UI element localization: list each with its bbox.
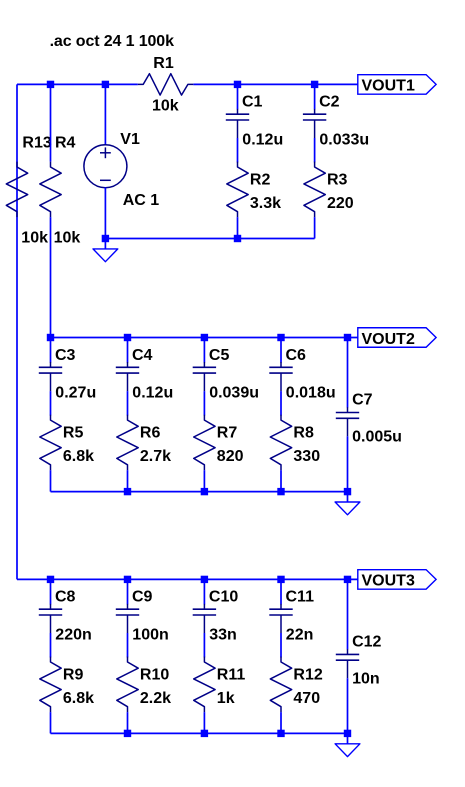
wire C8 top lead: [50, 579, 52, 604]
wire between C8 and R9: [50, 633, 52, 657]
svg-text:R11: R11: [217, 666, 246, 683]
svg-text:R12: R12: [293, 666, 322, 683]
svg-text:R8: R8: [293, 425, 314, 442]
label C8 value: [55, 627, 91, 644]
svg-text:V1: V1: [120, 131, 140, 148]
wire R4 lower lead down to section 2: [50, 217, 52, 337]
wire section3 top-left link: [17, 578, 51, 580]
svg-text:C1: C1: [242, 94, 263, 111]
capacitor C9: [116, 604, 139, 633]
wire C10 top lead: [203, 579, 205, 604]
junction node R6/bottom rail2: [124, 488, 131, 495]
junction node C7/top rail2: [344, 334, 351, 341]
label C3 name: [55, 347, 76, 364]
label R11 value: [217, 690, 235, 707]
svg-text:2.7k: 2.7k: [140, 448, 171, 465]
svg-text:0.12u: 0.12u: [242, 132, 283, 149]
svg-text:0.039u: 0.039u: [209, 385, 259, 402]
svg-text:10n: 10n: [352, 670, 380, 687]
wire section3 bottom rail: [51, 732, 348, 734]
wire R11 bottom lead: [203, 712, 205, 733]
resistor R12: [270, 657, 291, 713]
svg-text:C11: C11: [286, 589, 315, 606]
wire R4 upper lead: [50, 84, 52, 161]
resistor R13: [6, 162, 27, 218]
wire between C4 and R6: [127, 391, 129, 415]
flag VOUT2: [358, 328, 436, 348]
label C1 value: [242, 132, 283, 149]
spice directive .ac analysis text: [50, 33, 174, 50]
capacitor C7: [336, 407, 359, 436]
svg-text:6.8k: 6.8k: [63, 448, 94, 465]
wire C2 top lead: [314, 84, 316, 109]
label C3 value: [55, 385, 96, 402]
capacitor C1: [226, 109, 249, 138]
wire between C5 and R7: [203, 391, 205, 415]
capacitor C10: [193, 604, 216, 633]
junction node C8/top rail3: [47, 576, 54, 583]
label R6 value: [140, 448, 171, 465]
voltage source V1: [84, 145, 127, 188]
label C12 value: [352, 670, 380, 687]
svg-text:820: 820: [217, 448, 244, 465]
wire section2 top rail VOUT2 net: [51, 337, 358, 339]
label R5 name: [63, 425, 84, 442]
wire C9 top lead: [127, 579, 129, 604]
svg-text:C8: C8: [55, 589, 76, 606]
label R12 name: [293, 666, 322, 683]
label C10 value: [209, 627, 237, 644]
svg-text:C7: C7: [352, 392, 373, 409]
label R8 name: [293, 425, 314, 442]
ground symbol section3: [335, 733, 360, 756]
svg-text:100n: 100n: [132, 627, 168, 644]
label R2 value: [250, 195, 281, 212]
resistor R10: [117, 657, 138, 713]
label R7 value: [217, 448, 244, 465]
svg-text:R6: R6: [140, 425, 161, 442]
wire R12 bottom lead: [280, 712, 282, 733]
wire C11 top lead: [280, 579, 282, 604]
svg-text:R4: R4: [55, 135, 76, 152]
label C7 name: [352, 392, 373, 409]
label R3 name: [327, 171, 348, 188]
capacitor C5: [193, 362, 216, 391]
junction node R10/bottom rail3: [124, 730, 131, 737]
svg-text:VOUT1: VOUT1: [362, 78, 415, 95]
svg-text:C5: C5: [209, 347, 230, 364]
junction node V1/top rail: [102, 81, 109, 88]
wire R6 bottom lead: [127, 470, 129, 491]
svg-text:R1: R1: [153, 55, 174, 72]
label R12 value: [293, 690, 320, 707]
junction node C12/bottom rail3: [344, 730, 351, 737]
label R4 name: [55, 135, 76, 152]
label C6 name: [286, 347, 307, 364]
label V1 value AC 1: [123, 192, 160, 209]
junction node C11/top rail3: [277, 576, 284, 583]
capacitor C3: [39, 362, 62, 391]
wire between C1 and R2: [237, 138, 239, 162]
svg-text:0.005u: 0.005u: [352, 428, 402, 445]
junction node C3/top rail2: [47, 334, 54, 341]
label C8 name: [55, 589, 76, 606]
svg-text:R13: R13: [22, 135, 51, 152]
wire C7 bottom lead: [347, 436, 349, 491]
wire R8 bottom lead: [280, 470, 282, 491]
label C5 value: [209, 385, 259, 402]
label R10 name: [140, 666, 169, 683]
wire top rail left segment (node N001): [17, 83, 138, 85]
ground symbol below V1: [93, 239, 118, 262]
flag VOUT1: [358, 75, 436, 95]
label C7 value: [352, 428, 402, 445]
label R9 value: [63, 690, 94, 707]
label R1 name: [153, 55, 174, 72]
label C6 value: [286, 385, 336, 402]
label C9 value: [132, 627, 168, 644]
svg-text:6.8k: 6.8k: [63, 690, 94, 707]
svg-text:10k: 10k: [152, 98, 179, 115]
label C9 name: [132, 589, 153, 606]
label C12 name: [352, 633, 381, 650]
label C4 name: [132, 347, 153, 364]
wire between C3 and R5: [50, 391, 52, 415]
svg-text:R9: R9: [63, 666, 84, 683]
resistor R11: [194, 657, 215, 713]
junction node R4/top rail: [47, 81, 54, 88]
junction node C12/top rail3: [344, 576, 351, 583]
junction node C2/top rail: [311, 81, 318, 88]
junction node C5/top rail2: [201, 334, 208, 341]
svg-text:R10: R10: [140, 666, 169, 683]
junction node R12/bottom rail3: [277, 730, 284, 737]
wire C1 top lead: [237, 84, 239, 109]
label R8 value: [293, 448, 320, 465]
svg-text:AC 1: AC 1: [123, 192, 160, 209]
capacitor C12: [336, 649, 359, 678]
svg-text:22n: 22n: [286, 627, 314, 644]
svg-text:470: 470: [293, 690, 320, 707]
label C2 name: [319, 94, 340, 111]
label C11 name: [286, 589, 315, 606]
label R5 value: [63, 448, 94, 465]
wire left rail x=17 from top to section 3: [16, 84, 18, 579]
label R10 value: [140, 690, 171, 707]
wire between C2 and R3: [314, 138, 316, 162]
svg-text:10k: 10k: [54, 229, 81, 246]
wire section1 bottom rail (ground net): [105, 238, 314, 240]
junction node C4/top rail2: [124, 334, 131, 341]
wire R9 bottom lead: [50, 712, 52, 733]
capacitor C4: [116, 362, 139, 391]
svg-text:R3: R3: [327, 171, 348, 188]
wire between C11 and R12: [280, 633, 282, 657]
label C10 name: [209, 589, 238, 606]
wire C3 top lead: [50, 338, 52, 363]
svg-text:C9: C9: [132, 589, 153, 606]
junction node C6/top rail2: [277, 334, 284, 341]
svg-text:33n: 33n: [209, 627, 237, 644]
label C4 value: [132, 385, 173, 402]
label C11 value: [286, 627, 314, 644]
label C5 name: [209, 347, 230, 364]
junction node C10/top rail3: [201, 576, 208, 583]
wire between C10 and R11: [203, 633, 205, 657]
wire C12 bottom lead: [347, 678, 349, 733]
svg-text:1k: 1k: [217, 690, 235, 707]
svg-text:C10: C10: [209, 589, 238, 606]
label R7 name: [217, 425, 238, 442]
wire C12 top lead: [347, 579, 349, 649]
resistor R7: [194, 415, 215, 471]
label R6 name: [140, 425, 161, 442]
junction node C1/top rail: [234, 81, 241, 88]
label C1 name: [242, 94, 263, 111]
junction node R8/bottom rail2: [277, 488, 284, 495]
svg-text:R7: R7: [217, 425, 238, 442]
resistor R5: [40, 415, 61, 471]
capacitor C8: [39, 604, 62, 633]
label R13 name: [22, 135, 51, 152]
junction node V1/bottom rail: [102, 235, 109, 242]
wire R3 bottom lead: [314, 217, 316, 238]
label R11 name: [217, 666, 246, 683]
svg-text:VOUT2: VOUT2: [362, 331, 415, 348]
svg-text:C4: C4: [132, 347, 153, 364]
svg-text:.ac oct 24 1 100k: .ac oct 24 1 100k: [50, 33, 174, 50]
label R4 value 10k: [54, 229, 81, 246]
label R9 name: [63, 666, 84, 683]
wire C5 top lead: [203, 338, 205, 363]
wire top rail right segment R1 to VOUT1: [193, 83, 357, 85]
junction node C7/bottom rail2: [344, 488, 351, 495]
wire section3 top rail VOUT3 net: [51, 578, 358, 580]
wire R2 bottom lead: [237, 217, 239, 238]
wire C6 top lead: [280, 338, 282, 363]
label R2 name: [250, 171, 271, 188]
resistor R1: [138, 74, 194, 95]
flag VOUT3: [358, 570, 436, 590]
svg-text:0.12u: 0.12u: [132, 385, 173, 402]
svg-text:0.033u: 0.033u: [319, 132, 369, 149]
label R1 value 10k: [152, 98, 179, 115]
junction node R11/bottom rail3: [201, 730, 208, 737]
label R13 value 10k: [21, 229, 48, 246]
wire V1 top lead: [104, 84, 106, 145]
ground symbol section2: [335, 492, 360, 515]
svg-text:R5: R5: [63, 425, 84, 442]
capacitor C2: [303, 109, 326, 138]
capacitor C6: [269, 362, 292, 391]
resistor R2: [227, 162, 248, 218]
junction node C9/top rail3: [124, 576, 131, 583]
wire R10 bottom lead: [127, 712, 129, 733]
svg-text:220n: 220n: [55, 627, 91, 644]
wire C4 top lead: [127, 338, 129, 363]
wire R5 bottom lead: [50, 470, 52, 491]
svg-text:C3: C3: [55, 347, 76, 364]
svg-text:C12: C12: [352, 633, 381, 650]
junction node R2/bottom rail: [234, 235, 241, 242]
resistor R3: [304, 162, 325, 218]
svg-text:0.018u: 0.018u: [286, 385, 336, 402]
svg-text:R2: R2: [250, 171, 271, 188]
svg-text:3.3k: 3.3k: [250, 195, 281, 212]
svg-text:330: 330: [293, 448, 320, 465]
capacitor C11: [269, 604, 292, 633]
svg-text:0.27u: 0.27u: [55, 385, 96, 402]
resistor R8: [270, 415, 291, 471]
wire C7 top lead: [347, 338, 349, 408]
resistor R9: [40, 657, 61, 713]
label V1 name: [120, 131, 140, 148]
wire V1 bottom lead: [104, 187, 106, 238]
svg-text:VOUT3: VOUT3: [362, 573, 415, 590]
wire between C6 and R8: [280, 391, 282, 415]
svg-text:220: 220: [327, 195, 354, 212]
wire section2 bottom rail: [51, 491, 348, 493]
resistor R4: [40, 162, 61, 218]
svg-text:C6: C6: [286, 347, 307, 364]
svg-text:10k: 10k: [21, 229, 48, 246]
resistor R6: [117, 415, 138, 471]
junction node R7/bottom rail2: [201, 488, 208, 495]
label R3 value: [327, 195, 354, 212]
svg-text:2.2k: 2.2k: [140, 690, 171, 707]
wire R7 bottom lead: [203, 470, 205, 491]
svg-text:C2: C2: [319, 94, 340, 111]
wire between C9 and R10: [127, 633, 129, 657]
label C2 value: [319, 132, 369, 149]
